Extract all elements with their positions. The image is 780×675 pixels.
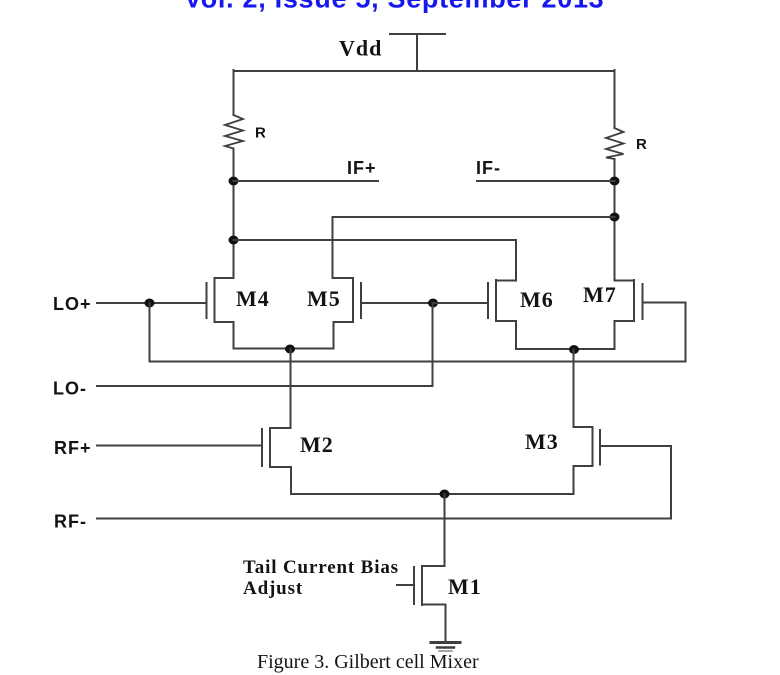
transistor M3 channel bar [592,427,594,466]
wire M2 source [270,467,291,494]
svg-text:Figure 3. Gilbert cell Mixer: Figure 3. Gilbert cell Mixer [257,651,479,673]
svg-text:M4: M4 [236,286,270,311]
wire LO+ bottom run to M7 gate [150,303,686,362]
svg-text:IF-: IF- [476,158,501,178]
wire M5 source [334,322,354,349]
node IF+ junction [229,177,239,186]
wire M7 source [615,321,635,349]
wire LO- up leg [432,303,434,386]
wire left tail to M2 drain [290,349,292,428]
svg-text:M6: M6 [520,287,554,312]
wire M4 drain jog [215,277,234,279]
wire M6 source [496,321,516,349]
wire top rail [234,70,615,72]
transistor M6 channel bar [495,280,497,321]
node IF- junction [610,177,620,186]
node right source junction [569,345,579,354]
wire M4-M5 source rail [234,348,334,350]
svg-text:LO+: LO+ [53,294,92,314]
wire M4 source [215,322,234,349]
wire M3 drain jog [574,426,593,428]
svg-text:LO-: LO- [53,379,87,399]
wire tail down to M1 [444,494,446,566]
svg-text:Vol. 2, Issue 5, September 201: Vol. 2, Issue 5, September 2013 [184,0,604,14]
transistor M6 gate bar [487,283,489,318]
wire right branch below resistor [614,159,616,281]
resistor R (right) [606,128,624,159]
wire cross-couple from M5 drain [333,217,615,278]
svg-text:RF+: RF+ [54,438,92,458]
wire tail rail [291,493,574,495]
resistor R (left) [225,115,243,149]
wire M6 gate lead [433,302,488,304]
transistor M2 gate bar [261,429,263,466]
node LO+ junction [145,299,155,308]
transistor M4 gate bar [206,283,208,318]
svg-text:RF-: RF- [54,512,87,532]
wire RF- lead [97,518,671,520]
wire M3 gate lead to RF- [600,446,671,519]
node left source junction [285,345,295,354]
wire LO+ lead [97,302,207,304]
svg-text:R: R [255,125,266,142]
wire LO+ down leg [149,303,151,362]
node left drain junction [229,236,239,245]
transistor M5 gate bar [360,283,362,318]
wire right branch upper [614,70,616,128]
transistor M1 channel bar [421,566,423,605]
transistor M3 gate bar [599,430,601,465]
svg-text:M2: M2 [300,432,334,457]
svg-text:M5: M5 [307,286,341,311]
svg-text:Vdd: Vdd [339,36,382,61]
wire M5 drain jog [333,277,354,279]
svg-text:M3: M3 [525,429,559,454]
transistor M7 channel bar [633,280,635,321]
wire right tail to M3 drain [573,350,575,428]
wire M1 source [422,605,446,643]
node right drain junction [610,213,620,222]
node tail junction [440,490,450,499]
transistor M2 channel bar [269,428,271,467]
wire M5 gate lead [361,302,433,304]
transistor M1 gate bar [413,567,415,604]
transistor M5 channel bar [352,278,354,322]
wire left branch upper [233,70,235,115]
svg-text:Tail Current Bias: Tail Current Bias [243,557,399,578]
wire RF+ lead [97,445,262,447]
wire LO- lead [97,385,433,387]
transistor M7 gate bar [642,284,644,319]
svg-text:Adjust: Adjust [243,578,303,599]
wire cross-couple to M6 drain [234,240,517,281]
svg-text:R: R [636,136,647,153]
node LO- junction [428,299,438,308]
wire M2 drain jog [270,427,291,429]
Vdd supply bar [390,33,445,35]
wire IF- lead [477,180,615,182]
wire Vdd stem [416,34,418,71]
transistor M4 channel bar [214,278,216,322]
wire M6-M7 source rail [516,348,615,350]
svg-text:M1: M1 [448,574,482,599]
wire left branch below resistor [233,149,235,279]
svg-text:M7: M7 [583,282,617,307]
wire M7 drain jog [615,280,635,282]
wire IF+ lead [234,180,379,182]
wire M6 drain jog [496,280,516,282]
wire M1 gate lead [397,584,414,586]
svg-text:IF+: IF+ [347,158,377,178]
wire M3 source [574,466,593,494]
ground [431,641,460,644]
wire M1 drain jog [422,565,445,567]
